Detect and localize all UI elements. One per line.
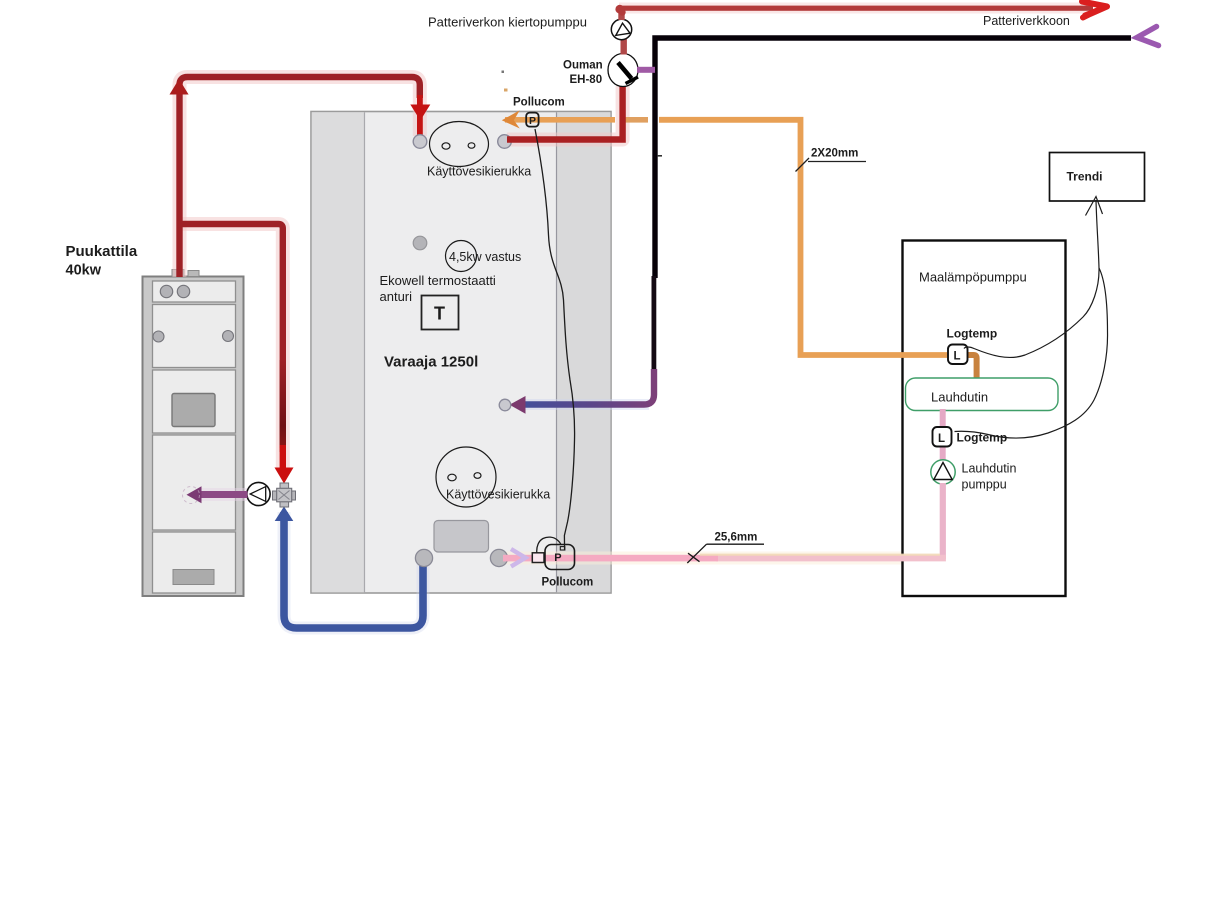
- svg-text:4,5kw vastus: 4,5kw vastus: [449, 250, 521, 264]
- svg-text:Käyttövesikierukka: Käyttövesikierukka: [427, 165, 531, 179]
- arrow pink chevron out of tank: [511, 549, 526, 567]
- nozzle tank bottom-left: [415, 549, 432, 566]
- svg-text:Patteriverkon kiertopumppu: Patteriverkon kiertopumppu: [428, 15, 587, 30]
- wire red to Ouman valve: [507, 86, 623, 140]
- svg-text:L: L: [938, 433, 945, 445]
- arrow purple into tank mid: [510, 396, 526, 414]
- wire purple lower (black pipe continuation): [523, 369, 654, 405]
- nozzle tank middle: [413, 236, 427, 250]
- tee fitting valve: [273, 483, 296, 507]
- arrow red up at top corner: [170, 79, 189, 95]
- svg-text:EH-80: EH-80: [570, 74, 603, 86]
- sensor square at bottom P: [532, 553, 544, 563]
- pump P2 (boiler charge pump): [247, 482, 270, 505]
- boiler top stub left: [172, 270, 184, 277]
- arrow red chevron Patteriverkkoon: [1082, 2, 1107, 18]
- arrow purple into boiler: [187, 486, 202, 503]
- svg-text:Pollucom: Pollucom: [542, 577, 594, 589]
- wire orange line from Pollucom to heat pump: [505, 117, 949, 355]
- wire curve Trendi to upper Logtemp: [964, 200, 1099, 357]
- wire pink pump down and to tank: [503, 483, 946, 561]
- valve Ouman EH-80: [608, 54, 638, 87]
- wire red supply loop (boiler to tank top): [180, 77, 420, 277]
- svg-text:Maalämpöpumppu: Maalämpöpumppu: [919, 270, 1027, 285]
- arrow purple chevron at black pipe end: [1137, 27, 1159, 46]
- dashed circle artifact at purple arrow: [183, 487, 200, 504]
- wire purple to boiler: [199, 491, 248, 498]
- pump Lauhdutin pumppu: [931, 460, 955, 484]
- svg-text:Patteriverkkoon: Patteriverkkoon: [983, 14, 1070, 28]
- svg-text:Käyttövesikierukka: Käyttövesikierukka: [446, 488, 550, 502]
- boiler panel 2: [153, 305, 236, 368]
- wire red branch to mixing tee: [177, 224, 283, 452]
- nozzle tank top-right: [498, 135, 512, 149]
- heat pump box Maalämpöpumppu: [903, 241, 1066, 597]
- tank bottom hatch: [434, 521, 489, 553]
- svg-text:Trendi: Trendi: [1067, 170, 1103, 184]
- nozzle tank mid-right: [499, 399, 511, 411]
- svg-text:Logtemp: Logtemp: [947, 327, 998, 341]
- boiler top stub right: [188, 271, 199, 277]
- boiler panel1 knob left: [160, 285, 172, 297]
- svg-text:Ekowell termostaatti: Ekowell termostaatti: [380, 273, 496, 288]
- arrow red down into tank: [410, 105, 430, 121]
- boiler door: [172, 394, 215, 427]
- arrow blue up into tee: [275, 507, 294, 522]
- wire sensor line top P to bottom P: [535, 129, 575, 553]
- tank left strip: [312, 112, 365, 592]
- boiler panel 4: [153, 435, 236, 530]
- boiler bottom vent: [173, 570, 214, 585]
- svg-text:pumppu: pumppu: [962, 478, 1007, 492]
- heater circle 4,5kw: [446, 241, 477, 272]
- dimension 2X20mm: [796, 148, 867, 172]
- svg-text:Ouman: Ouman: [563, 60, 603, 72]
- wire orange elbow into Lauhdutin: [967, 355, 977, 380]
- arrow caret into Trendi: [1086, 197, 1103, 216]
- boiler panel1 knob right: [177, 285, 189, 297]
- arrow orange chevron into tank: [502, 110, 520, 128]
- pipe glow halos: [177, 8, 1094, 628]
- Trendi box: [1050, 153, 1145, 202]
- tank right strip: [557, 112, 611, 592]
- boiler panel 5: [153, 532, 236, 593]
- boiler panel 3: [153, 370, 236, 433]
- wire black flow pipe: [655, 38, 1131, 278]
- coil circle bottom (Käyttövesikierukka): [436, 447, 496, 507]
- stray dots artifact: [502, 71, 663, 157]
- arrow red down to tee fitting: [275, 445, 294, 484]
- wire blue return pipe: [284, 512, 423, 628]
- pollucom P box bottom: [545, 545, 575, 570]
- wire red stub pump to top line: [618, 8, 624, 20]
- svg-text:25,6mm: 25,6mm: [715, 532, 758, 544]
- nozzle tank top-left: [413, 135, 427, 149]
- coil circle top (Käyttövesikierukka): [430, 122, 489, 167]
- nozzle tank bottom-right: [490, 549, 507, 566]
- svg-text:Varaaja 1250l: Varaaja 1250l: [384, 354, 478, 371]
- tank Varaaja 1250l body: [311, 112, 611, 594]
- svg-text:Puukattila: Puukattila: [66, 243, 138, 260]
- svg-text:P: P: [529, 115, 536, 127]
- svg-text:anturi: anturi: [380, 289, 413, 304]
- svg-text:Pollucom: Pollucom: [513, 97, 565, 109]
- svg-text:T: T: [434, 304, 445, 324]
- boiler panel2 knob right: [223, 331, 234, 342]
- svg-text:2X20mm: 2X20mm: [811, 148, 858, 160]
- pump P1 (Patteriverkon kiertopumppu): [611, 19, 631, 39]
- svg-text:L: L: [954, 351, 961, 363]
- wire red top line to radiators: [615, 5, 1093, 16]
- svg-text:P: P: [554, 552, 561, 564]
- sensor box L lower: [933, 427, 952, 447]
- boiler panel2 knob left: [153, 331, 164, 342]
- boiler panel 1: [153, 281, 236, 302]
- boiler Puukattila body: [143, 277, 244, 597]
- wire pink vertical Lauhdutin to pump: [940, 409, 946, 461]
- wire curve Trendi to lower Logtemp: [955, 268, 1108, 438]
- dimension 25,6mm: [687, 532, 764, 564]
- svg-text:40kw: 40kw: [66, 263, 102, 279]
- sensor box L upper: [948, 345, 968, 365]
- wire red stub valve to pump: [621, 38, 627, 55]
- wire red bright segment into tank: [417, 95, 423, 138]
- sensor box T: [422, 296, 459, 330]
- wire purple stub valve to black pipe: [637, 67, 655, 73]
- svg-text:Lauhdutin: Lauhdutin: [931, 390, 988, 405]
- pollucom P box top: [526, 113, 538, 127]
- svg-text:Logtemp: Logtemp: [957, 431, 1008, 445]
- Lauhdutin box: [906, 378, 1059, 411]
- svg-text:Lauhdutin: Lauhdutin: [962, 462, 1017, 476]
- wire red branch lower gradient segment: [280, 360, 286, 448]
